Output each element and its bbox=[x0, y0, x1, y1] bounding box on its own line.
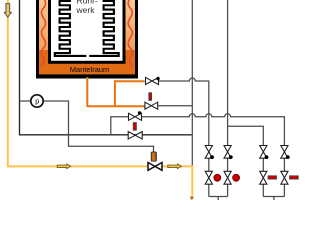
svg-text:Mantelraum: Mantelraum bbox=[70, 65, 110, 74]
svg-text:p: p bbox=[35, 97, 39, 106]
svg-text:werk: werk bbox=[76, 5, 96, 15]
